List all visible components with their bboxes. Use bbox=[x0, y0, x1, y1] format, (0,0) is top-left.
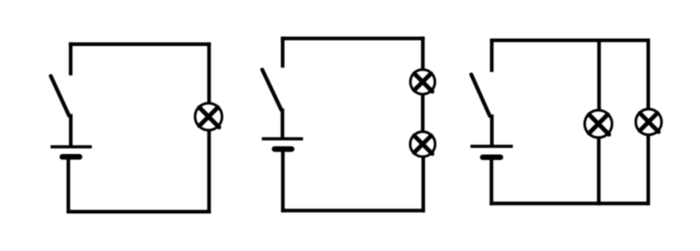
lamp L5 bbox=[636, 109, 662, 135]
wire: C3 blade bottom to battery bbox=[490, 114, 494, 146]
wire: C3 top bbox=[490, 39, 650, 43]
switch S2 (open blade) bbox=[262, 70, 281, 110]
wire: C2 bottom bbox=[281, 209, 425, 213]
circuit 3 (parallel, two lamps) bbox=[470, 39, 661, 206]
lamp L3 bbox=[410, 132, 435, 157]
wire: C2 top bbox=[281, 37, 425, 41]
wire: C3 middle branch lower bbox=[597, 137, 601, 206]
battery B2 bbox=[262, 139, 303, 149]
wire: C1 right upper bbox=[207, 42, 211, 104]
wire: C1 top bbox=[69, 42, 211, 46]
lamp L4 bbox=[585, 110, 612, 137]
wire: C3 left stub above switch bbox=[490, 39, 494, 72]
wire: C2 blade bottom to battery bbox=[281, 108, 285, 138]
wire: C2 between lamps bbox=[421, 93, 425, 132]
wire: C1 left lower (battery to bottom corner) bbox=[67, 157, 71, 214]
wire: C2 right upper bbox=[421, 37, 425, 71]
wire: C1 right lower bbox=[207, 129, 211, 213]
battery B3 bbox=[470, 146, 512, 157]
switch S1 (open blade) bbox=[51, 76, 69, 116]
switch S3 (open blade) bbox=[471, 74, 490, 115]
wire: C3 bottom bbox=[490, 202, 650, 206]
lamp L2 bbox=[410, 70, 435, 95]
wire: C3 right lower bbox=[646, 134, 650, 205]
lamp L1 bbox=[195, 103, 222, 130]
wire: C3 right upper bbox=[646, 39, 650, 110]
wire: C3 middle branch upper bbox=[597, 39, 601, 112]
wire: C2 right lower bbox=[421, 156, 425, 213]
wire: C1 blade bottom to battery bbox=[69, 114, 73, 147]
wire: C1 bottom bbox=[67, 210, 211, 214]
battery B1 bbox=[51, 147, 92, 157]
circuit 2 (series, two lamps) bbox=[262, 37, 435, 213]
wire: C1 left stub above switch bbox=[69, 42, 73, 75]
circuit 1 (series, one lamp) bbox=[51, 42, 223, 213]
wire: C3 left lower (battery to bottom corner) bbox=[490, 157, 494, 205]
wire: C2 left stub above switch bbox=[281, 37, 285, 68]
wire: C2 left lower (battery to bottom corner) bbox=[281, 149, 285, 212]
